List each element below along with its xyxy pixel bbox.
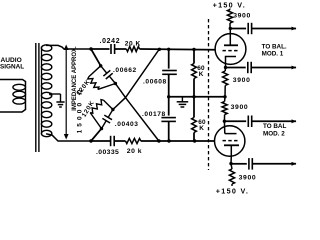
resistor 20K (top) <box>126 46 139 51</box>
V1 cathode <box>226 57 237 64</box>
wire <box>224 68 226 72</box>
wire <box>224 86 226 97</box>
wire: bottom rail right <box>141 140 215 142</box>
mid ground rail <box>169 96 225 98</box>
wire <box>193 49 195 64</box>
wire <box>193 133 195 142</box>
wire: .00178 to bottom rail <box>168 121 170 141</box>
wire: diagonal to TR <box>113 49 159 110</box>
V1 plate <box>224 29 238 46</box>
node: V2 plate junction <box>229 162 232 165</box>
label: TO BAL MOD. 2 <box>263 123 286 138</box>
svg-text:MOD. 1: MOD. 1 <box>262 51 284 58</box>
node BL <box>89 139 92 142</box>
V2 grid <box>223 140 239 142</box>
wire: .00608 branch top <box>168 49 170 69</box>
wire: output to BAL MOD 2 (b) <box>253 163 297 165</box>
svg-text:.00178: .00178 <box>142 111 166 118</box>
capacitor .00178 <box>161 118 176 122</box>
wire: top rail left <box>91 48 110 50</box>
wire <box>193 97 195 118</box>
svg-text:3900: 3900 <box>239 175 257 182</box>
wire: output to BAL MOD 1 (b) <box>251 67 296 69</box>
wire: output to BAL MOD 1 (a) <box>252 28 296 30</box>
node: R2C2 output <box>111 108 114 111</box>
node: R1C1 output <box>114 82 117 85</box>
wire <box>115 48 127 50</box>
wire: V2 cathode output <box>224 120 246 122</box>
node: R1C1 input <box>99 64 102 67</box>
wire <box>231 184 233 186</box>
svg-text:+150 V.: +150 V. <box>216 187 249 194</box>
resistor 3900 (V2 plate) <box>229 164 234 184</box>
node: top of 60K branch <box>192 48 195 51</box>
node: V2 cathode junction <box>223 120 226 123</box>
wire <box>229 9 231 10</box>
transformer center-tap wire <box>49 93 61 96</box>
resistor 3900 (V1 plate) <box>227 10 232 24</box>
svg-text:+150 V.: +150 V. <box>213 0 246 9</box>
node: bottom of .00178 branch <box>167 139 170 142</box>
resistor 20 k (bottom) <box>126 138 141 143</box>
node: V1 cathode junction <box>224 66 227 69</box>
svg-text:.00608: .00608 <box>143 79 167 86</box>
wire: diagonal BL to network R2C2 <box>91 129 102 141</box>
node: mid rail left <box>167 95 170 98</box>
node: bottom of 60K branch <box>193 139 196 142</box>
wire <box>114 140 125 142</box>
ground at transformer center tap <box>56 94 64 107</box>
capacitor .00335 <box>111 136 115 146</box>
capacitor: V2 plate coupling <box>249 158 252 170</box>
ground symbol (mid rail) <box>177 97 189 107</box>
resistor 3900 (V2 cathode) <box>222 97 227 115</box>
node BR (diagonal junction) <box>157 139 160 142</box>
wire: bottom rail left <box>91 140 110 142</box>
node: V1 plate junction <box>229 27 232 30</box>
svg-text:20 k: 20 k <box>127 148 142 155</box>
svg-text:3900: 3900 <box>233 13 251 20</box>
node TL <box>89 47 92 50</box>
wire: diagonal TL to network R1C1 <box>91 49 101 66</box>
svg-text:.00403: .00403 <box>115 121 139 128</box>
svg-text:TO BAL: TO BAL <box>263 123 286 130</box>
svg-text:MOD. 2: MOD. 2 <box>263 130 285 137</box>
node TR (diagonal junction) <box>158 48 161 51</box>
node: R2C2 input <box>100 127 103 130</box>
resistor 60K (upper) <box>192 64 197 79</box>
wire <box>223 115 225 122</box>
resistor 120K (R1, upper diamond) <box>88 66 116 90</box>
svg-text:.0242: .0242 <box>100 38 121 45</box>
node: cathode return junction <box>223 95 226 98</box>
wire: output to BAL MOD 2 (a) <box>252 120 296 122</box>
svg-text:.00335: .00335 <box>96 149 119 156</box>
wire: V1 plate output <box>230 28 246 30</box>
capacitor: V1 plate coupling <box>248 23 251 34</box>
svg-text:3900: 3900 <box>231 104 249 111</box>
wire <box>193 79 195 97</box>
transformer T1 primary winding <box>0 80 26 113</box>
wire: top rail right <box>140 48 216 51</box>
V2 plate <box>224 145 239 156</box>
wire: .00178 branch from mid rail <box>168 97 170 116</box>
wire: V2 plate output <box>231 163 247 165</box>
dashed divider line <box>208 19 210 170</box>
capacitor .00403 (C2, lower diamond) <box>102 110 113 129</box>
resistor 120K (R2, lower diamond) <box>90 100 113 129</box>
triode V1 envelope <box>215 34 246 65</box>
svg-text:K: K <box>199 71 204 78</box>
wire: V1 cathode lead <box>225 64 227 68</box>
wire: V2 plate lead <box>230 156 232 164</box>
node: 60K junction on mid rail <box>192 95 195 98</box>
wire: .00608 to mid rail <box>168 74 170 97</box>
triode V2 envelope <box>215 126 245 156</box>
capacitor: V2 cathode coupling <box>248 116 251 128</box>
svg-text:20 K: 20 K <box>125 41 141 48</box>
capacitor .00662 (C1, upper diamond) <box>101 66 116 84</box>
capacitor .0242 <box>111 44 115 54</box>
resistor 3900 (V1 cathode) <box>223 71 228 86</box>
label: TO BAL. MOD. 1 <box>262 44 287 58</box>
transformer T1 secondary winding <box>41 45 91 141</box>
resistor 60K (lower) <box>192 118 197 133</box>
capacitor .00608 <box>162 71 177 75</box>
wire: V1 cathode output <box>226 67 246 69</box>
node: top of .00608 branch <box>167 48 170 51</box>
wire: diagonal to BR <box>115 84 158 142</box>
V2 cathode <box>224 121 236 133</box>
dimension arrow: impedance <box>64 45 69 140</box>
wire <box>229 23 231 29</box>
svg-text:3900: 3900 <box>233 77 251 84</box>
V1 grid <box>223 50 240 52</box>
capacitor: V1 cathode coupling <box>248 62 251 73</box>
svg-text:SIGNAL: SIGNAL <box>0 64 24 71</box>
svg-text:K: K <box>199 125 204 132</box>
svg-text:.00662: .00662 <box>113 67 137 74</box>
transformer T1 core <box>36 43 39 152</box>
